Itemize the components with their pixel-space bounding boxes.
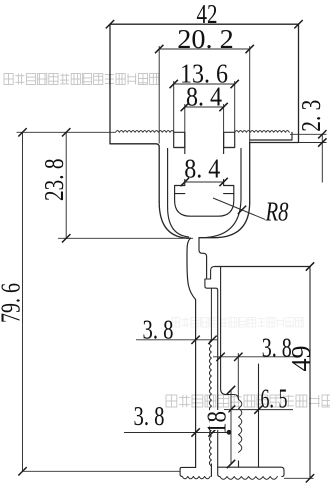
stem foot — [180, 467, 196, 476]
flange right end step — [250, 132, 292, 140]
dim 2.3 — [321, 134, 323, 182]
dim 8.4 lower — [185, 181, 224, 183]
box left wall serrated — [209, 340, 211, 466]
box foot slab top — [218, 467, 284, 476]
right arm outer wall — [249, 143, 251, 203]
slot right notch upper — [224, 132, 235, 147]
screw wall lower end — [238, 461, 240, 467]
screw boss bowl — [175, 194, 234, 217]
U shell outer right — [199, 202, 250, 238]
U shell inner left — [168, 149, 189, 237]
U shell inner right — [207, 149, 241, 238]
text mask 18 — [210, 410, 229, 430]
slot right notch lower — [224, 186, 234, 194]
watermark company name row 2 (very faint) — [172, 318, 303, 328]
flange ceiling plain left notch — [174, 131, 185, 133]
stem foot serrated bottom — [182, 476, 210, 478]
dim 3.8 left lower — [124, 432, 230, 434]
dim 3.8 left upper — [136, 339, 218, 341]
slot left notch lower — [175, 186, 185, 194]
profile top cap outline — [110, 24, 299, 144]
svg-text:23. 8: 23. 8 — [39, 158, 69, 201]
svg-text:R8: R8 — [265, 197, 289, 227]
box foot serrated bottom — [220, 477, 278, 480]
dim 42 line — [110, 23, 299, 25]
dim 3.8 right — [213, 356, 295, 358]
text mask slot — [183, 154, 225, 179]
notch floor right — [224, 147, 235, 149]
cap bottom edge left — [110, 144, 159, 202]
serrated flange top left — [116, 131, 175, 133]
slot wall left — [184, 132, 186, 185]
box top edge — [215, 266, 310, 268]
slot wall right — [223, 132, 225, 185]
dim 8.4 upper — [185, 106, 224, 108]
box bottom extension to 49 line — [284, 477, 314, 479]
slot left notch upper — [174, 132, 185, 147]
svg-text:8. 4: 8. 4 — [186, 82, 222, 112]
svg-text:3. 8: 3. 8 — [134, 401, 165, 431]
serrated screw wall — [239, 400, 242, 453]
flange ceiling plain right notch — [224, 131, 235, 133]
watermark company name row 1 — [4, 74, 159, 85]
neck right step — [199, 238, 207, 278]
svg-text:8. 4: 8. 4 — [184, 154, 220, 184]
U shell outer left — [159, 202, 190, 238]
svg-text:3. 8: 3. 8 — [143, 315, 174, 345]
serrated flange top right — [235, 131, 290, 133]
watermark company name row 3 — [166, 395, 330, 407]
svg-text:20. 2: 20. 2 — [177, 24, 234, 54]
dim 23.8 — [65, 132, 67, 238]
dim 20.2 — [159, 48, 250, 50]
dim 79.6 — [22, 132, 24, 471]
svg-text:6. 5: 6. 5 — [261, 384, 288, 414]
box inner lip wall — [210, 288, 212, 340]
dim 6.5 — [224, 409, 293, 411]
svg-text:79. 6: 79. 6 — [0, 283, 26, 323]
svg-text:49: 49 — [286, 346, 316, 372]
dim 49 — [306, 262, 314, 270]
neck left S-curve — [187, 238, 196, 467]
leader R8 — [213, 198, 265, 219]
dim 18 — [230, 390, 232, 464]
box right wall (49 side) — [309, 267, 311, 479]
svg-text:2. 3: 2. 3 — [296, 100, 326, 132]
dim 13.6 — [174, 83, 235, 85]
box top-left lip hook — [205, 267, 220, 477]
notch floor left — [174, 147, 185, 149]
pocket left wall — [221, 267, 239, 400]
stem foot right edge — [210, 464, 212, 476]
box partition wall — [258, 364, 260, 467]
svg-text:18: 18 — [202, 411, 232, 434]
